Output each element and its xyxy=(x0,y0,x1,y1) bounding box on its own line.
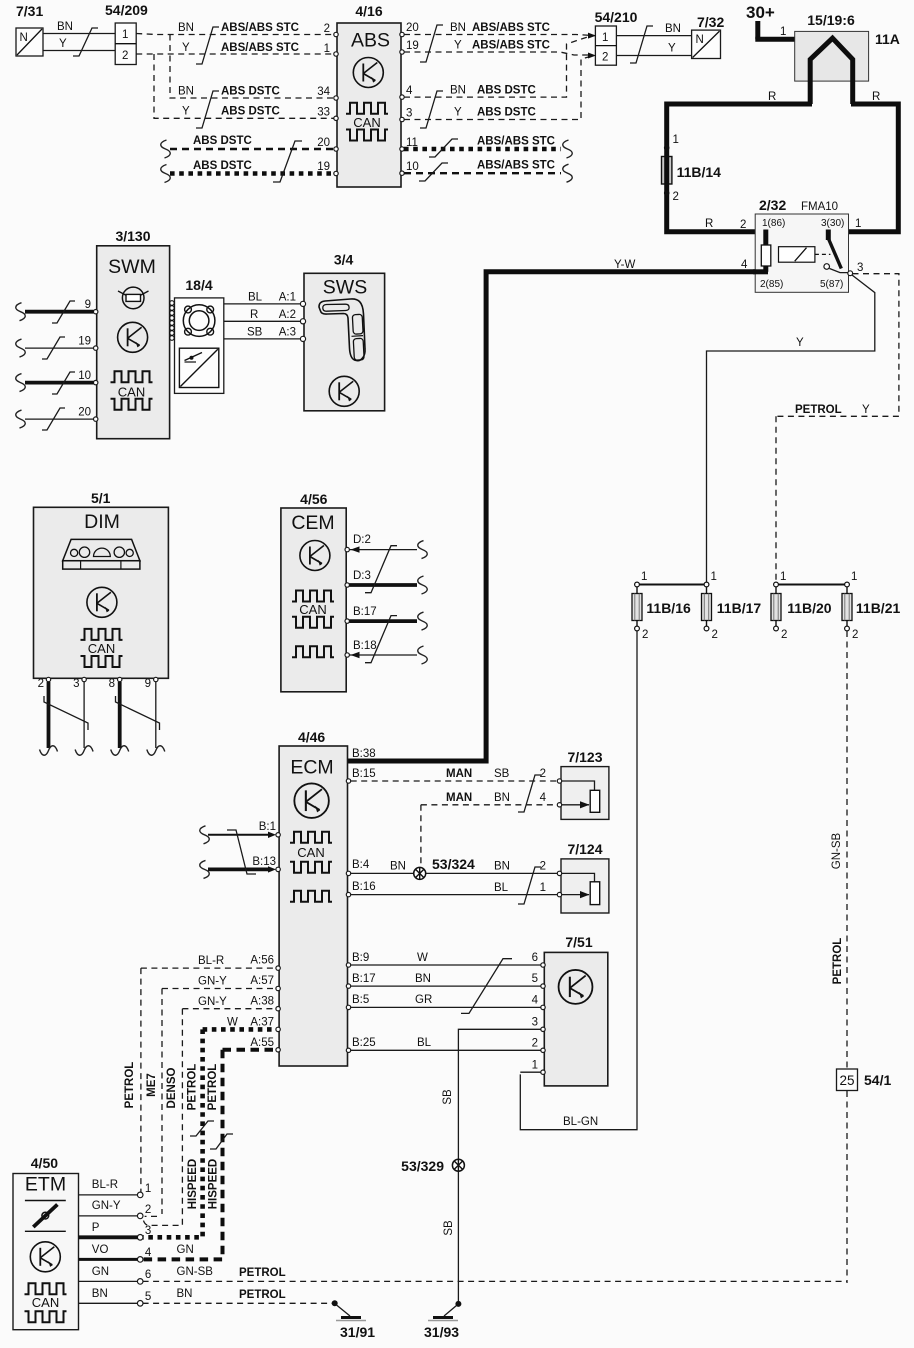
svg-text:GN-SB: GN-SB xyxy=(831,832,843,869)
svg-text:GR: GR xyxy=(415,994,432,1006)
svg-text:CAN: CAN xyxy=(299,602,326,617)
svg-text:FMA10: FMA10 xyxy=(801,201,838,213)
svg-text:B:15: B:15 xyxy=(352,768,376,780)
svg-text:ABS/ABS STC: ABS/ABS STC xyxy=(221,22,299,34)
svg-text:R: R xyxy=(705,218,713,230)
svg-text:PETROL: PETROL xyxy=(239,1267,286,1279)
svg-text:19: 19 xyxy=(317,161,330,173)
svg-text:BN: BN xyxy=(92,1288,108,1300)
svg-text:ABS DSTC: ABS DSTC xyxy=(221,106,280,118)
svg-text:Y: Y xyxy=(668,43,676,55)
svg-text:BN: BN xyxy=(178,86,194,98)
svg-text:B:9: B:9 xyxy=(352,952,369,964)
svg-text:2: 2 xyxy=(712,629,718,641)
svg-text:Y: Y xyxy=(862,404,870,416)
svg-text:20: 20 xyxy=(406,22,419,34)
svg-text:54/1: 54/1 xyxy=(864,1072,891,1088)
svg-text:GN: GN xyxy=(92,1266,109,1278)
svg-text:20: 20 xyxy=(78,407,91,419)
svg-text:3: 3 xyxy=(73,678,79,690)
svg-text:CAN: CAN xyxy=(32,1295,59,1310)
svg-text:1: 1 xyxy=(780,26,786,38)
svg-text:3/4: 3/4 xyxy=(334,252,354,268)
svg-text:SB: SB xyxy=(247,327,263,339)
svg-text:53/329: 53/329 xyxy=(401,1158,444,1174)
svg-text:1: 1 xyxy=(673,134,679,146)
svg-text:W: W xyxy=(227,1017,238,1029)
svg-text:D:2: D:2 xyxy=(353,534,371,546)
svg-text:BN: BN xyxy=(450,85,466,97)
svg-text:7/32: 7/32 xyxy=(697,14,724,30)
svg-text:SB: SB xyxy=(442,1089,454,1105)
svg-text:R: R xyxy=(250,309,258,321)
svg-text:2: 2 xyxy=(852,629,858,641)
svg-text:BL-R: BL-R xyxy=(92,1179,118,1191)
svg-text:BL: BL xyxy=(494,882,509,894)
svg-text:HISPEED: HISPEED xyxy=(187,1159,199,1210)
svg-text:4: 4 xyxy=(741,259,748,271)
svg-text:CAN: CAN xyxy=(88,641,115,656)
svg-text:MAN: MAN xyxy=(446,768,472,780)
svg-text:5: 5 xyxy=(532,973,538,985)
svg-text:Y: Y xyxy=(182,42,190,54)
svg-text:B:17: B:17 xyxy=(353,606,377,618)
svg-text:11B/16: 11B/16 xyxy=(646,600,691,616)
svg-text:1: 1 xyxy=(711,571,717,583)
svg-text:2: 2 xyxy=(532,1038,538,1050)
svg-text:BL: BL xyxy=(248,292,263,304)
svg-text:B:4: B:4 xyxy=(352,859,370,871)
svg-text:5(87): 5(87) xyxy=(820,279,843,290)
svg-text:19: 19 xyxy=(78,336,91,348)
svg-text:1: 1 xyxy=(532,1060,538,1072)
svg-text:A:1: A:1 xyxy=(279,292,296,304)
svg-text:1(86): 1(86) xyxy=(762,218,785,229)
svg-text:4/46: 4/46 xyxy=(298,729,325,745)
svg-text:PETROL: PETROL xyxy=(239,1289,286,1301)
svg-text:3: 3 xyxy=(532,1017,538,1029)
svg-text:31/91: 31/91 xyxy=(340,1324,375,1340)
svg-text:CEM: CEM xyxy=(291,512,334,534)
svg-text:4/16: 4/16 xyxy=(355,3,382,19)
svg-text:PETROL: PETROL xyxy=(207,1064,219,1111)
svg-text:P: P xyxy=(92,1222,100,1234)
svg-text:B:1: B:1 xyxy=(259,821,276,833)
svg-text:2: 2 xyxy=(602,52,608,64)
svg-text:Y: Y xyxy=(454,40,462,52)
svg-text:7/124: 7/124 xyxy=(567,841,602,857)
svg-text:CAN: CAN xyxy=(118,385,145,400)
svg-text:D:3: D:3 xyxy=(353,570,371,582)
svg-text:SWS: SWS xyxy=(323,277,367,299)
svg-text:20: 20 xyxy=(317,137,330,149)
svg-text:BN: BN xyxy=(450,22,466,34)
svg-text:SB: SB xyxy=(443,1220,455,1236)
svg-text:9: 9 xyxy=(85,299,91,311)
svg-text:HISPEED: HISPEED xyxy=(208,1159,220,1210)
svg-text:ABS DSTC: ABS DSTC xyxy=(477,107,536,119)
svg-text:A:57: A:57 xyxy=(250,975,274,987)
svg-text:10: 10 xyxy=(406,161,419,173)
svg-text:DENSO: DENSO xyxy=(166,1068,178,1109)
svg-text:4: 4 xyxy=(145,1247,152,1259)
svg-text:7/51: 7/51 xyxy=(565,934,592,950)
svg-text:B:16: B:16 xyxy=(352,881,376,893)
svg-text:3: 3 xyxy=(857,262,863,274)
svg-text:2: 2 xyxy=(324,23,330,35)
svg-text:4/50: 4/50 xyxy=(31,1155,58,1171)
svg-text:1: 1 xyxy=(641,571,647,583)
svg-text:ABS DSTC: ABS DSTC xyxy=(193,135,252,147)
svg-text:R: R xyxy=(768,91,776,103)
svg-text:GN-Y: GN-Y xyxy=(198,976,227,988)
svg-text:A:37: A:37 xyxy=(250,1017,274,1029)
svg-text:N: N xyxy=(20,32,28,44)
svg-text:CAN: CAN xyxy=(353,115,380,130)
svg-text:5/1: 5/1 xyxy=(91,490,111,506)
svg-text:B:5: B:5 xyxy=(352,994,369,1006)
svg-text:A:56: A:56 xyxy=(250,955,274,967)
svg-text:A:2: A:2 xyxy=(279,309,296,321)
svg-text:2: 2 xyxy=(145,1204,151,1216)
svg-text:BN: BN xyxy=(415,973,431,985)
svg-text:2: 2 xyxy=(122,50,128,62)
svg-text:53/324: 53/324 xyxy=(432,856,475,872)
svg-text:ABS/ABS STC: ABS/ABS STC xyxy=(477,160,555,172)
svg-text:PETROL: PETROL xyxy=(832,938,844,985)
svg-text:2: 2 xyxy=(781,629,787,641)
svg-text:11B/14: 11B/14 xyxy=(677,164,722,180)
svg-text:1: 1 xyxy=(780,571,786,583)
svg-text:1: 1 xyxy=(851,571,857,583)
svg-text:11B/20: 11B/20 xyxy=(787,600,832,616)
svg-text:CAN: CAN xyxy=(297,845,324,860)
svg-text:GN-Y: GN-Y xyxy=(198,996,227,1008)
svg-text:2: 2 xyxy=(38,678,44,690)
svg-text:31/93: 31/93 xyxy=(424,1324,459,1340)
svg-text:B:17: B:17 xyxy=(352,973,376,985)
svg-text:ABS/ABS STC: ABS/ABS STC xyxy=(477,136,555,148)
svg-text:7/31: 7/31 xyxy=(16,3,43,19)
svg-text:30+: 30+ xyxy=(746,3,775,22)
svg-text:ABS/ABS STC: ABS/ABS STC xyxy=(472,40,550,52)
svg-text:B:38: B:38 xyxy=(352,748,376,760)
svg-text:11B/17: 11B/17 xyxy=(717,600,762,616)
svg-text:3/130: 3/130 xyxy=(115,228,150,244)
svg-text:ABS/ABS STC: ABS/ABS STC xyxy=(472,22,550,34)
svg-text:ABS/ABS STC: ABS/ABS STC xyxy=(221,42,299,54)
svg-text:A:55: A:55 xyxy=(250,1037,274,1049)
svg-text:3: 3 xyxy=(406,108,412,120)
svg-text:1: 1 xyxy=(122,29,128,41)
svg-text:Y-W: Y-W xyxy=(614,259,635,271)
svg-text:ABS DSTC: ABS DSTC xyxy=(477,85,536,97)
svg-text:5: 5 xyxy=(145,1291,151,1303)
svg-text:Y: Y xyxy=(59,38,67,50)
svg-text:GN: GN xyxy=(177,1244,194,1256)
svg-text:11B/21: 11B/21 xyxy=(856,600,901,616)
svg-text:2(85): 2(85) xyxy=(760,279,783,290)
svg-text:4: 4 xyxy=(532,995,539,1007)
svg-text:2: 2 xyxy=(740,219,746,231)
svg-text:15/19:6: 15/19:6 xyxy=(807,12,855,28)
svg-text:ECM: ECM xyxy=(290,757,333,779)
svg-text:ABS DSTC: ABS DSTC xyxy=(221,86,280,98)
svg-text:A:3: A:3 xyxy=(279,327,296,339)
svg-text:BN: BN xyxy=(665,23,681,35)
svg-text:25: 25 xyxy=(839,1073,854,1088)
svg-text:N: N xyxy=(696,34,704,46)
svg-text:1: 1 xyxy=(145,1183,151,1195)
svg-text:PETROL: PETROL xyxy=(187,1064,199,1111)
svg-text:BL: BL xyxy=(417,1037,432,1049)
svg-text:PETROL: PETROL xyxy=(795,404,842,416)
svg-text:PETROL: PETROL xyxy=(124,1062,136,1109)
svg-text:2/32: 2/32 xyxy=(759,197,786,213)
svg-text:10: 10 xyxy=(78,370,91,382)
svg-text:6: 6 xyxy=(145,1269,151,1281)
svg-text:1: 1 xyxy=(602,32,608,44)
svg-text:ETM: ETM xyxy=(25,1174,66,1196)
svg-text:BL-R: BL-R xyxy=(198,955,224,967)
svg-text:1: 1 xyxy=(324,43,330,55)
svg-text:8: 8 xyxy=(109,678,115,690)
svg-text:W: W xyxy=(417,952,428,964)
svg-text:SWM: SWM xyxy=(108,256,156,278)
svg-text:54/210: 54/210 xyxy=(595,9,638,25)
svg-text:SB: SB xyxy=(494,768,510,780)
svg-text:3(30): 3(30) xyxy=(821,218,844,229)
svg-text:BN: BN xyxy=(494,792,510,804)
svg-text:9: 9 xyxy=(145,678,151,690)
svg-text:ABS: ABS xyxy=(351,30,390,52)
svg-text:Y: Y xyxy=(796,337,804,349)
svg-text:Y: Y xyxy=(454,107,462,119)
svg-text:BL-GN: BL-GN xyxy=(563,1116,598,1128)
svg-text:BN: BN xyxy=(57,21,73,33)
svg-text:Y: Y xyxy=(182,106,190,118)
svg-text:R: R xyxy=(872,91,880,103)
svg-text:4: 4 xyxy=(406,85,413,97)
svg-text:2: 2 xyxy=(642,629,648,641)
svg-text:BN: BN xyxy=(178,22,194,34)
svg-text:DIM: DIM xyxy=(84,511,120,533)
svg-text:1: 1 xyxy=(855,218,861,230)
svg-text:54/209: 54/209 xyxy=(105,2,148,18)
svg-text:BN: BN xyxy=(390,861,406,873)
svg-text:BN: BN xyxy=(177,1288,193,1300)
svg-text:33: 33 xyxy=(317,107,330,119)
svg-text:19: 19 xyxy=(406,40,419,52)
svg-text:1: 1 xyxy=(540,882,546,894)
svg-text:34: 34 xyxy=(317,86,330,98)
svg-text:2: 2 xyxy=(540,768,546,780)
svg-text:GN-Y: GN-Y xyxy=(92,1200,121,1212)
svg-text:B:13: B:13 xyxy=(252,856,276,868)
svg-text:11A: 11A xyxy=(875,31,900,47)
svg-text:B:25: B:25 xyxy=(352,1037,376,1049)
svg-text:6: 6 xyxy=(532,952,538,964)
svg-text:18/4: 18/4 xyxy=(185,277,212,293)
svg-text:4: 4 xyxy=(540,792,547,804)
svg-text:ABS DSTC: ABS DSTC xyxy=(193,160,252,172)
svg-text:7/123: 7/123 xyxy=(567,749,602,765)
svg-text:A:38: A:38 xyxy=(250,996,274,1008)
svg-text:ME7: ME7 xyxy=(146,1073,158,1097)
svg-text:MAN: MAN xyxy=(446,792,472,804)
svg-text:VO: VO xyxy=(92,1244,109,1256)
svg-text:GN-SB: GN-SB xyxy=(177,1266,214,1278)
svg-text:2: 2 xyxy=(673,191,679,203)
svg-text:BN: BN xyxy=(494,861,510,873)
svg-text:B:18: B:18 xyxy=(353,640,377,652)
svg-text:4/56: 4/56 xyxy=(300,491,327,507)
